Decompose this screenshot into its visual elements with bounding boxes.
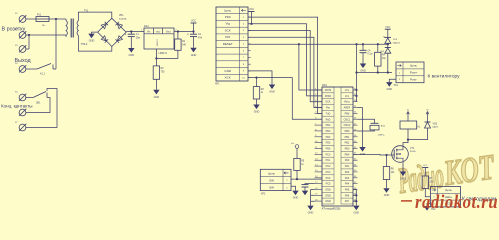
junction C1 node — [130, 30, 132, 32]
wire R6 to ground — [386, 180, 388, 189]
wire secondary top to bridge — [78, 12, 111, 20]
svg-text:VCC: VCC — [191, 20, 196, 23]
svg-text:VT1: VT1 — [410, 148, 415, 150]
junction R1 top — [177, 30, 179, 32]
power arrow VD5 supply — [426, 110, 429, 122]
power pin above R5 — [295, 145, 299, 149]
svg-text:VD5: VD5 — [433, 124, 438, 126]
svg-text:radiokot.ru: radiokot.ru — [415, 191, 498, 212]
junction Vcc pin1 — [355, 89, 357, 91]
ground R2 — [153, 90, 159, 99]
svg-text:GND: GND — [308, 212, 314, 215]
microcontroller DD1 ATmega8535 — [315, 84, 358, 211]
wire XP2 SW2 to ground — [291, 186, 296, 190]
wire X5 to switch SB1 — [26, 97, 33, 99]
wire SB1 mid contact to X6 — [26, 98, 50, 113]
wire C1 stem — [130, 32, 132, 35]
svg-text:Vcc: Vcc — [291, 143, 294, 145]
power VCC at XP1 — [249, 8, 255, 11]
junction VCC bus rail — [355, 43, 357, 45]
power VCC regulator output — [191, 20, 197, 23]
capacitor C4 — [360, 50, 373, 55]
svg-text:SW: SW — [269, 186, 274, 190]
svg-text:XCK: XCK — [225, 76, 231, 80]
svg-text:GND: GND — [354, 212, 360, 215]
svg-text:MISO: MISO — [325, 95, 331, 98]
ground C5 — [302, 191, 308, 196]
wire secondary bottom to bridge — [78, 36, 111, 52]
watermark radiokot.ru dash — [401, 200, 412, 202]
wire C2 stem — [193, 32, 195, 35]
wire VCC riser at C2 — [193, 23, 195, 32]
svg-text:PD4: PD4 — [326, 136, 331, 139]
svg-text:ТПК-2: ТПК-2 — [81, 43, 88, 46]
terminal X6 — [15, 107, 26, 116]
resistor R3 — [253, 87, 264, 99]
ground C1 — [128, 48, 134, 57]
svg-text:SCK: SCK — [325, 101, 330, 104]
svg-text:PC5: PC5 — [326, 183, 331, 186]
svg-text:12МГц: 12МГц — [378, 135, 385, 137]
svg-text:DD1: DD1 — [322, 84, 327, 87]
wire IC GND pins bus right — [353, 190, 356, 206]
svg-text:GND: GND — [154, 96, 160, 99]
capacitor C5 — [302, 185, 309, 187]
ground R6 — [383, 188, 389, 197]
svg-text:PA2: PA2 — [345, 171, 350, 174]
svg-text:SB1: SB1 — [36, 103, 41, 105]
ground fan connector — [386, 82, 392, 91]
ground bridge — [88, 34, 94, 43]
svg-text:Vк: Vк — [407, 110, 409, 112]
wire XP1 pin2 Vtg to VCC — [248, 12, 258, 24]
transistor VT1 MOSFET — [392, 146, 417, 163]
junction fan line at VCC bus — [355, 71, 357, 73]
wire SB1 top contact to X7 loop — [26, 89, 57, 128]
svg-text:GND: GND — [293, 197, 299, 200]
connector XS1 — [394, 62, 425, 87]
svg-text:0.1м: 0.1м — [368, 54, 373, 56]
svg-text:+: + — [125, 32, 127, 36]
svg-text:GND: GND — [89, 40, 95, 43]
svg-text:DA1: DA1 — [144, 25, 149, 28]
diode VD3 — [380, 48, 391, 54]
svg-text:К вентилятору: К вентилятору — [428, 74, 461, 80]
wire VCC to zener — [387, 29, 389, 37]
svg-text:XS1: XS1 — [394, 85, 399, 87]
wire rail to diode VD3 — [387, 44, 389, 47]
junction VD3 bottom — [387, 71, 389, 73]
svg-text:GND: GND — [325, 188, 331, 191]
svg-text:GND: GND — [387, 88, 393, 91]
wire AREF to ground — [358, 108, 363, 147]
wire X2 to X3 — [28, 35, 30, 49]
svg-text:Pow-: Pow- — [410, 77, 417, 81]
terminal X5 — [15, 92, 26, 101]
bridge rectifier VD1 — [98, 15, 127, 46]
svg-text:КД521: КД521 — [433, 127, 440, 129]
junction zener rail — [387, 43, 389, 45]
svg-text:GND: GND — [325, 200, 331, 203]
svg-text:PA6: PA6 — [345, 194, 350, 197]
svg-text:BQ1: BQ1 — [381, 126, 386, 128]
svg-text:PA7: PA7 — [345, 200, 350, 203]
capacitor C1 — [125, 32, 141, 39]
wire R6 stem — [386, 155, 388, 167]
svg-text:PD0: PD0 — [225, 15, 231, 19]
relay K1 coil — [400, 121, 421, 129]
ground C2 — [190, 48, 196, 57]
svg-text:LM317: LM317 — [157, 38, 159, 45]
diode VD5 — [425, 122, 440, 129]
resistor R4 — [375, 52, 387, 66]
fuse FU1 — [36, 14, 49, 27]
svg-text:PC0: PC0 — [326, 153, 331, 156]
svg-text:PA5: PA5 — [345, 188, 350, 191]
svg-text:PD6: PD6 — [326, 148, 331, 151]
junction C4 rail — [362, 43, 364, 45]
resistor R5 — [294, 158, 305, 170]
wire R4 stem top — [377, 44, 379, 52]
junction gate R6 — [385, 154, 387, 156]
wire gate from IC — [353, 153, 394, 156]
svg-text:IRLML: IRLML — [410, 151, 417, 153]
svg-text:47м: 47м — [198, 38, 203, 40]
junction live node — [55, 18, 57, 20]
svg-text:Vк: Vк — [426, 110, 428, 112]
junction SW1 R5 — [296, 178, 298, 180]
ground source — [400, 172, 406, 181]
regulator DA1 LM317 — [141, 25, 177, 55]
svg-text:OSC1: OSC1 — [344, 118, 351, 121]
svg-text:VD1: VD1 — [119, 15, 124, 17]
wire XP2 SW1 to IC — [291, 178, 322, 180]
ground AREF — [359, 147, 365, 156]
svg-text:25м: 25м — [136, 38, 141, 40]
wire X4 to switch — [26, 68, 37, 70]
crystal BQ1 — [370, 123, 386, 136]
svg-text:PA3: PA3 — [345, 177, 350, 180]
wire VD3 to fan line — [387, 53, 389, 72]
svg-text:Цепь: Цепь — [268, 171, 276, 175]
svg-text:PDI: PDI — [225, 35, 230, 39]
wire bridge minus to ground — [92, 32, 98, 34]
svg-text:LM317L: LM317L — [159, 52, 168, 55]
wire live drop to contact K1.1 — [55, 19, 57, 69]
ground XP1 pin9 — [269, 85, 275, 94]
svg-text:PD3: PD3 — [326, 130, 331, 133]
svg-text:PB1: PB1 — [345, 136, 350, 139]
wire ADJ to R2 — [155, 58, 157, 66]
ground R3 — [253, 105, 259, 114]
svg-text:Цепь: Цепь — [224, 8, 232, 12]
svg-text:XP1: XP1 — [215, 84, 220, 86]
wire bridge plus rail to DA1 — [126, 31, 144, 33]
junction RESET bus — [298, 43, 300, 45]
svg-text:GND: GND — [269, 91, 275, 94]
wire C5 to ground — [304, 187, 306, 191]
svg-text:RxD: RxD — [326, 118, 331, 121]
wire DA1 ADJ stem — [155, 49, 157, 58]
svg-text:КД5103: КД5103 — [393, 42, 401, 44]
resistor R6 — [383, 167, 395, 180]
wire C1 to ground — [130, 37, 132, 48]
svg-text:PB0: PB0 — [345, 130, 350, 133]
svg-text:PB2: PB2 — [345, 142, 350, 145]
wire VCC bus to IC — [356, 44, 358, 101]
svg-text:PC3: PC3 — [326, 171, 331, 174]
svg-text:Pow+: Pow+ — [410, 71, 418, 75]
junction ADJ node — [155, 57, 157, 59]
svg-text:GND: GND — [325, 194, 331, 197]
resistor R1 — [175, 39, 187, 50]
connector XP1 — [215, 7, 251, 86]
wire C2 to ground — [193, 37, 195, 48]
junction right gnd bus a — [355, 194, 357, 196]
svg-text:MOSI: MOSI — [325, 89, 332, 92]
svg-text:GND: GND — [360, 70, 366, 73]
svg-text:GND: GND — [191, 54, 197, 57]
wire RESET to IC pin — [299, 44, 322, 90]
ground DD1 left — [307, 206, 313, 215]
wire OSC1 lead — [358, 119, 375, 123]
svg-text:PA0: PA0 — [345, 159, 350, 162]
power VCC LED — [422, 165, 428, 167]
wire R3 to ground — [256, 99, 258, 105]
svg-text:SCK: SCK — [225, 28, 231, 32]
wire LED- to ground — [427, 204, 431, 206]
svg-text:TxD: TxD — [326, 112, 331, 115]
terminal X2 — [15, 29, 26, 38]
svg-text:PB3: PB3 — [345, 148, 350, 151]
wire VD5 to drain — [408, 128, 428, 140]
svg-text:PB6: PB6 — [345, 112, 350, 115]
svg-text:AVcc: AVcc — [344, 101, 350, 104]
wire zener to rail — [387, 42, 389, 45]
junction R4 rail — [377, 43, 379, 45]
svg-text:PB4: PB4 — [345, 153, 350, 156]
terminal X1 — [15, 13, 26, 22]
svg-text:Vtg: Vtg — [225, 22, 230, 26]
wire R7 to XS2 — [425, 188, 430, 196]
svg-text:PC2: PC2 — [326, 165, 331, 168]
wire R2 to ground — [155, 79, 157, 90]
svg-text:GND: GND — [254, 111, 260, 114]
svg-text:GND: GND — [224, 69, 232, 73]
svg-text:RESET: RESET — [223, 42, 233, 46]
terminal X4 — [15, 63, 26, 72]
wire XP1 pin2 bus to IC — [258, 24, 322, 96]
wire X2 to transformer primary bottom — [26, 34, 66, 36]
svg-text:Цепь: Цепь — [410, 64, 418, 68]
switch SB1 — [33, 92, 47, 105]
junction right gnd bus b — [355, 200, 357, 202]
junction Vcc pin2 — [355, 95, 357, 97]
svg-text:PC1: PC1 — [326, 159, 331, 162]
wire R1 bottom to ADJ — [156, 50, 178, 58]
svg-text:VCC: VCC — [423, 165, 428, 167]
wire XP1 pin10 XCK to IC — [248, 78, 322, 120]
wire R5 bottom to SW line — [296, 170, 298, 179]
wire fuse to transformer primary — [49, 18, 66, 20]
wire R1 top stem — [177, 32, 179, 40]
svg-text:AREF: AREF — [344, 107, 351, 110]
ground C4 — [360, 64, 366, 73]
power arrow relay supply — [407, 110, 410, 121]
svg-text:FU1: FU1 — [37, 14, 42, 16]
svg-text:PA4: PA4 — [345, 183, 350, 186]
resistor R7 — [422, 176, 434, 188]
svg-text:VCC: VCC — [249, 8, 254, 11]
ground XS2 — [424, 206, 430, 211]
wire source to ground — [402, 162, 404, 171]
connector XS2 — [431, 187, 461, 211]
wire XP1 pin4 PDI to IC — [248, 37, 322, 107]
junction R3 tap — [255, 77, 257, 79]
wire C4 stem — [362, 44, 364, 50]
resistor R2 — [153, 66, 165, 79]
transformer TV1 — [29, 10, 89, 47]
wire R4 bottom — [377, 66, 379, 72]
junction C2 node — [192, 30, 194, 32]
wire relay coil to drain — [403, 129, 408, 146]
wire DA1 output rail — [174, 31, 194, 33]
junction relay drain — [407, 139, 409, 141]
svg-text:PC4: PC4 — [326, 177, 331, 180]
wire XP1 pin3 SCK to IC — [248, 31, 322, 102]
wire VCC to R7 — [424, 168, 426, 177]
junction Vtg VCC tap — [250, 23, 252, 25]
junction X2-X3 node — [28, 34, 30, 36]
svg-text:Vout: Vout — [166, 31, 171, 34]
svg-text:GND: GND — [156, 32, 161, 34]
wire X1 to fuse — [26, 18, 36, 20]
svg-text:GND: GND — [400, 178, 406, 181]
svg-text:SW: SW — [269, 178, 274, 182]
svg-text:Rst: Rst — [326, 107, 330, 110]
wire IC GND pins bus left — [311, 190, 315, 206]
ground XP2 — [292, 191, 298, 200]
svg-text:GND: GND — [384, 194, 390, 197]
wire Pow- to ground — [389, 79, 396, 82]
wire OSC2 lead — [358, 130, 375, 131]
terminal X3 — [15, 45, 26, 52]
wire X3 stub — [26, 48, 29, 50]
svg-text:PD2: PD2 — [326, 124, 331, 127]
terminal X7 — [15, 122, 26, 131]
wire XP1 pin1 to IC pin MOSI — [248, 17, 322, 113]
svg-text:PD5: PD5 — [326, 142, 331, 145]
power bar zener — [385, 28, 391, 30]
svg-text:K1.1: K1.1 — [40, 73, 46, 76]
wire power to R5 — [296, 148, 298, 158]
connector XP2 — [260, 169, 291, 195]
wire IC decoupling cap stem — [305, 184, 315, 185]
svg-text:GND: GND — [129, 54, 135, 57]
wire XP1 pin9 GND — [248, 71, 272, 85]
ground DD1 right — [353, 206, 359, 215]
svg-text:OSC2: OSC2 — [344, 124, 351, 127]
relay contact K1.1 — [37, 64, 56, 76]
wire C4 to ground — [362, 53, 364, 64]
junction R4 bottom — [377, 71, 379, 73]
svg-text:КЦ405А: КЦ405А — [119, 17, 127, 20]
svg-text:PA1: PA1 — [345, 165, 350, 168]
zener diode VD4 — [384, 36, 401, 44]
capacitor C2 — [187, 32, 203, 39]
svg-text:+: + — [187, 32, 189, 36]
svg-text:ATmega8535L: ATmega8535L — [322, 207, 342, 211]
svg-text:XP2: XP2 — [261, 193, 266, 195]
wire XP1 pin5 RESET rail — [248, 43, 388, 45]
wire R3 stem — [256, 78, 258, 87]
wire fan power line — [357, 72, 393, 74]
